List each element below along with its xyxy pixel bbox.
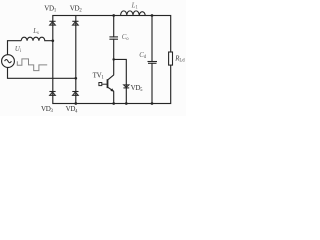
svg-text:L1: L1 [131, 2, 139, 10]
svg-text:VD2: VD2 [70, 4, 83, 13]
svg-text:VD4: VD4 [66, 105, 79, 114]
svg-text:TV1: TV1 [93, 71, 105, 80]
svg-text:Ui: Ui [15, 46, 22, 54]
svg-text:Cd: Cd [139, 52, 147, 60]
svg-text:Ls: Ls [32, 28, 39, 36]
svg-text:VD5: VD5 [131, 84, 144, 93]
svg-text:RLd: RLd [174, 56, 185, 64]
svg-text:VD3: VD3 [41, 105, 54, 114]
svg-text:Co: Co [122, 34, 130, 42]
svg-text:VD1: VD1 [44, 4, 57, 13]
